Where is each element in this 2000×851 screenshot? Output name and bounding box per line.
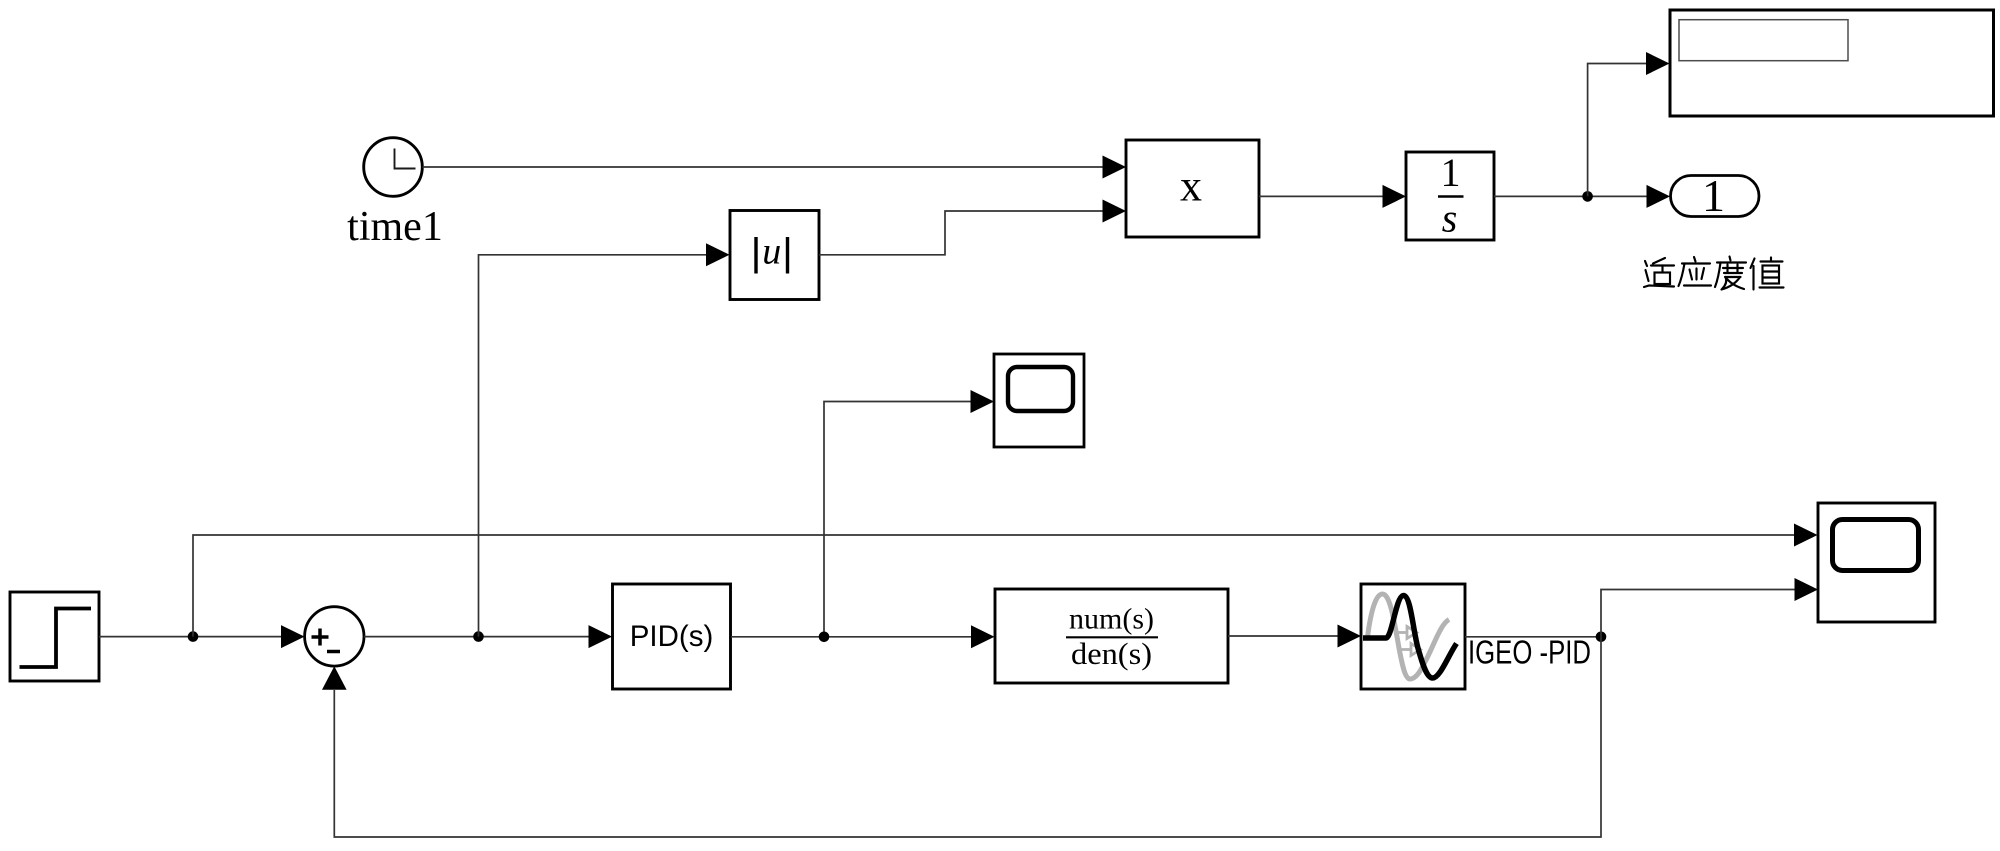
arrowhead into transfer fcn xyxy=(971,625,995,648)
arrowhead into display xyxy=(1646,52,1670,75)
arrowhead into scope2 port2 xyxy=(1795,578,1819,601)
svg-text:x: x xyxy=(1180,162,1202,211)
label fitness value (hand-drawn CJK) xyxy=(1644,257,1784,290)
wire junction up to abs input xyxy=(479,255,707,637)
svg-text:u: u xyxy=(762,231,781,273)
scope1 block xyxy=(994,354,1084,447)
svg-text:den(s): den(s) xyxy=(1071,636,1152,671)
wire reference up and across to scope2 port1 xyxy=(193,535,1794,637)
display block xyxy=(1670,10,1994,116)
svg-text:s: s xyxy=(1442,196,1458,241)
arrowhead into sum xyxy=(281,625,305,648)
product block x xyxy=(1126,140,1259,237)
wire junction up to display xyxy=(1588,64,1646,197)
step source block xyxy=(10,592,99,681)
junction dot PID output xyxy=(819,632,830,643)
svg-text:1: 1 xyxy=(1702,170,1725,221)
svg-text:time1: time1 xyxy=(347,204,443,250)
wire sum to PID xyxy=(364,636,589,638)
wire integrator to outport xyxy=(1494,195,1647,197)
char shi xyxy=(1644,258,1674,287)
IGEO-PID subsystem block xyxy=(1361,584,1465,689)
sum block xyxy=(305,607,364,666)
wire pid-output junction up to scope1 xyxy=(824,402,972,637)
wire step to sum xyxy=(99,636,281,638)
svg-text:1: 1 xyxy=(1441,150,1461,195)
arrowhead into product port2 xyxy=(1103,200,1127,223)
transfer fcn block num(s)/den(s) xyxy=(995,589,1228,683)
arrowhead into outport xyxy=(1647,185,1671,208)
junction dot sum output xyxy=(473,631,484,642)
wire clock to product port1 xyxy=(423,166,1105,168)
svg-text:PID(s): PID(s) xyxy=(630,620,714,653)
wire transfer fcn to IGEO block xyxy=(1228,635,1338,637)
gray selector arrows xyxy=(1396,627,1420,656)
arrowhead into product port1 xyxy=(1103,156,1127,179)
wire junction up to scope2 port2 xyxy=(1601,590,1795,637)
wire PID to transfer fcn xyxy=(731,636,971,638)
char ying xyxy=(1679,257,1712,286)
wire abs output to product port2 xyxy=(819,211,1104,255)
gray sine curve xyxy=(1368,594,1450,679)
arrowhead into integrator xyxy=(1383,185,1407,208)
black sine curve xyxy=(1363,596,1457,679)
scope2 block xyxy=(1818,503,1935,622)
char du xyxy=(1715,257,1746,290)
wire product to integrator xyxy=(1259,195,1384,197)
char zhi xyxy=(1751,258,1784,290)
clock source time1 xyxy=(364,138,423,197)
junction dot integrator output xyxy=(1582,191,1593,202)
arrowhead into scope2 port1 xyxy=(1794,524,1818,547)
junction dot step output xyxy=(188,631,199,642)
arrowhead into scope1 xyxy=(971,390,995,413)
junction dot IGEO output xyxy=(1596,632,1607,643)
svg-text:num(s): num(s) xyxy=(1069,603,1154,636)
arrowhead up into sum bottom xyxy=(322,666,347,690)
PID controller block xyxy=(613,584,731,689)
abs block |u| xyxy=(730,211,819,300)
arrowhead into PID xyxy=(589,625,613,648)
integrator block 1/s xyxy=(1406,150,1494,241)
wire IGEO to junction xyxy=(1465,636,1601,638)
feedback wire from junction down and back to sum xyxy=(334,637,1601,837)
arrowhead into abs xyxy=(706,243,730,266)
outport block 1 xyxy=(1671,170,1760,221)
arrowhead into IGEO block xyxy=(1338,625,1362,648)
svg-text:IGEO -PID: IGEO -PID xyxy=(1468,634,1591,671)
